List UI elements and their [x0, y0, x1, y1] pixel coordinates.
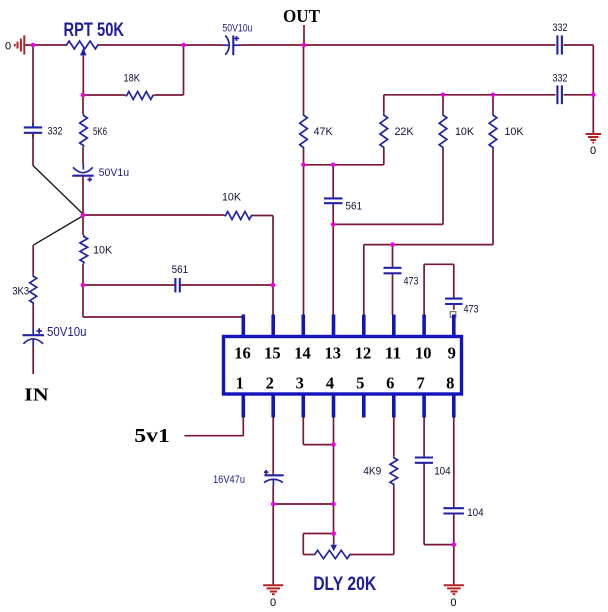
wire OUT down to 47K: [303, 45, 305, 114]
ground 0 right: [586, 134, 602, 157]
resistor 10K (x443): [439, 95, 474, 225]
svg-text:RPT 50K: RPT 50K: [64, 20, 125, 41]
wire pot to cap 50V10u: [99, 44, 223, 46]
svg-text:16V47u: 16V47u: [213, 474, 245, 486]
wire pin7 col to node: [424, 544, 454, 546]
svg-text:473: 473: [464, 304, 479, 316]
wire cap to OUT node: [241, 44, 304, 46]
svg-text:473: 473: [404, 276, 419, 288]
svg-text:332: 332: [553, 22, 568, 34]
wire diagonal from node to 3K3: [33, 216, 83, 246]
ground 0 bottom-right: [444, 585, 464, 609]
wire pin2 column to ground: [272, 504, 274, 585]
resistor 10K (x493): [489, 95, 524, 245]
svg-text:9: 9: [448, 344, 456, 363]
svg-text:1: 1: [236, 374, 244, 393]
svg-text:14: 14: [294, 344, 311, 363]
potentiometer DLY 20K: [313, 534, 376, 596]
wire pot left branch: [303, 533, 333, 535]
wire node to 18K: [83, 94, 125, 96]
wire 47K bottom: [303, 149, 305, 165]
resistor 22K: [380, 95, 414, 165]
wire 10K right corner down: [253, 215, 273, 217]
resistor 10K horizontal: [222, 192, 253, 220]
svg-text:3K3: 3K3: [12, 286, 29, 298]
wire pin10 up-over: [423, 264, 425, 315]
svg-text:22K: 22K: [395, 126, 415, 138]
wire to 3K3: [32, 245, 34, 274]
wire pin3 over to pin4 col: [302, 418, 304, 445]
wire 561 left segment: [83, 284, 175, 286]
svg-text:5: 5: [356, 374, 364, 393]
wire rail y=224.4: [333, 223, 443, 225]
svg-text:4: 4: [326, 374, 334, 393]
svg-text:8: 8: [446, 374, 454, 393]
svg-text:561: 561: [346, 201, 363, 213]
svg-text:DLY 20K: DLY 20K: [313, 574, 376, 595]
wire rail y=164.8: [304, 164, 384, 166]
svg-text:10K: 10K: [505, 126, 525, 138]
capacitor 50V10u top: [222, 23, 252, 56]
svg-text:332: 332: [48, 126, 63, 138]
IC U1 16-pin body: [224, 337, 462, 395]
svg-text:2: 2: [266, 374, 274, 393]
wire 332 to right corner: [564, 44, 594, 46]
svg-text:10K: 10K: [455, 126, 475, 138]
svg-text:IN: IN: [24, 385, 49, 405]
wire top rail left: [33, 44, 65, 46]
ground 0 top-left: [5, 35, 33, 54]
wire node to pin15: [272, 285, 274, 315]
svg-text:16: 16: [234, 344, 251, 363]
wire node rail y=504: [273, 503, 333, 505]
svg-text:6: 6: [386, 374, 394, 393]
svg-text:10K: 10K: [222, 192, 242, 204]
node OUT stem: [303, 25, 305, 45]
wire diagonal to node: [33, 165, 83, 214]
IC pins bottom stubs: [243, 395, 453, 418]
svg-text:18K: 18K: [124, 73, 141, 85]
svg-text:10: 10: [415, 344, 432, 363]
wire 3K3 to cap: [32, 304, 34, 328]
svg-text:0: 0: [450, 597, 456, 609]
capacitor 16V47u (polarized): [213, 470, 284, 486]
wire pin13 column: [332, 224, 334, 315]
capacitor C 332 lower-right: [553, 73, 568, 105]
svg-text:OUT: OUT: [283, 6, 320, 26]
wire wiper stem: [82, 55, 84, 95]
potentiometer RPT 50K: [64, 20, 125, 55]
svg-text:561: 561: [172, 264, 189, 276]
svg-text:12: 12: [355, 344, 372, 363]
svg-text:332: 332: [553, 73, 568, 85]
wire mid rail y=94.8: [384, 94, 556, 96]
wire 332 down: [32, 134, 34, 165]
wire pin1 to 5v1: [242, 418, 244, 436]
capacitor 50V1u (polarized): [72, 147, 129, 182]
resistor 18K: [124, 73, 155, 100]
wire IN open end: [32, 347, 34, 374]
capacitor C 332 left: [24, 123, 63, 139]
resistor 47K: [300, 114, 334, 149]
wire pin2 down: [272, 418, 274, 475]
svg-text:10K: 10K: [93, 245, 113, 257]
wire 16V47u to node: [272, 486, 274, 504]
svg-text:50V10u: 50V10u: [47, 325, 87, 339]
capacitor 104 (pin7): [415, 418, 451, 545]
wire pin4 column down: [333, 418, 335, 534]
wire node down to pin16 rail: [82, 285, 84, 317]
pin numbers bottom row 1..8: [236, 374, 455, 393]
capacitor 104 (pin8): [443, 418, 483, 545]
resistor 3K3: [12, 275, 37, 305]
svg-text:50V10u: 50V10u: [222, 23, 252, 35]
resistor 5K6: [80, 95, 107, 147]
capacitor 473 (x453.8): [445, 299, 478, 316]
wire rail y=244.6: [364, 244, 493, 246]
svg-text:0: 0: [270, 597, 276, 609]
svg-text:3: 3: [296, 374, 304, 393]
wire pot right to 4K9: [352, 554, 394, 556]
svg-text:5K6: 5K6: [93, 126, 107, 138]
wire pin14 column: [303, 165, 305, 315]
wire pin16 rail: [83, 316, 243, 318]
capacitor C 332 upper-right: [553, 22, 568, 55]
IC pins top stubs: [243, 315, 453, 337]
svg-text:4K9: 4K9: [363, 466, 381, 478]
svg-text:50V1u: 50V1u: [99, 167, 130, 179]
svg-text:15: 15: [264, 344, 281, 363]
wire 50V1u to node: [82, 176, 84, 215]
resistor 4K9: [363, 418, 397, 486]
svg-text:0: 0: [5, 41, 11, 53]
svg-text:7: 7: [416, 374, 424, 393]
resistor 10K vertical: [80, 215, 113, 285]
svg-text:0: 0: [590, 145, 596, 157]
no-connect square pin9: [450, 312, 456, 318]
svg-text:104: 104: [434, 466, 451, 478]
svg-text:5v1: 5v1: [134, 425, 170, 447]
wire 18K right up to top rail: [154, 94, 183, 96]
svg-text:11: 11: [385, 344, 402, 363]
wire gnd node down to 332 cap: [32, 45, 34, 126]
wire pin12 column: [363, 245, 365, 315]
capacitor 561 right (vertical): [324, 165, 362, 225]
ground 0 bottom-mid: [263, 585, 283, 609]
wire OUT to 332: [304, 44, 556, 46]
capacitor 50V10u IN (polarized): [23, 325, 87, 347]
capacitor 473 (x392.5): [384, 245, 419, 315]
pin numbers top row 16..9: [234, 344, 456, 363]
wire 332b right segment: [564, 94, 594, 96]
wire 561 right segment: [180, 284, 273, 286]
svg-text:47K: 47K: [314, 126, 334, 138]
svg-text:104: 104: [467, 507, 484, 519]
capacitor 561 left: [172, 264, 189, 293]
wire node to ground: [453, 545, 455, 585]
wire right vertical down to ground: [592, 45, 594, 134]
wire node to 10K horizontal: [83, 214, 224, 216]
svg-text:13: 13: [324, 344, 341, 363]
